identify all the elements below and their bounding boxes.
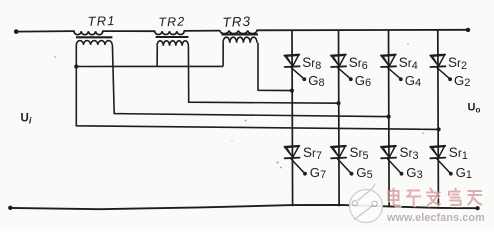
thyristor Sr4 <box>381 55 396 68</box>
gate terminal node G5 <box>350 172 354 176</box>
svg-text:TR1: TR1 <box>87 13 116 29</box>
thyristor Sr3 <box>381 146 396 159</box>
svg-text:Sr7: Sr7 <box>303 145 322 162</box>
node: top-left input terminal <box>14 29 19 34</box>
gate terminal node G2 <box>448 77 452 81</box>
gate terminal node G4 <box>399 77 403 81</box>
thyristor Sr6 <box>331 55 346 68</box>
wire: thyristor column Sr8/Sr7 <box>291 30 294 206</box>
wire: TR1 secondary left lead down to bus A <box>76 45 438 130</box>
transformer TR3: primary winding <box>220 31 257 34</box>
top wire <box>16 30 468 32</box>
gate lead G2 <box>437 67 450 78</box>
node: junction bus D / Sr6 column <box>336 101 340 105</box>
gate lead G7 <box>291 159 304 173</box>
transformer TR1: primary winding <box>74 31 103 35</box>
node: junction bus B / Sr4 column <box>387 115 391 119</box>
gate terminal node G8 <box>302 77 306 81</box>
svg-text:www.elecfans.com: www.elecfans.com <box>386 212 485 224</box>
svg-text:G3: G3 <box>406 165 422 181</box>
wire: TR1 secondary right lead down to bus B <box>112 45 388 117</box>
node: top-right output terminal <box>466 28 470 32</box>
svg-text:G1: G1 <box>456 165 472 181</box>
transformer TR2: secondary winding <box>157 41 188 46</box>
wire: tap bus C linking TR1/TR2/TR3 left leads <box>76 65 223 67</box>
svg-text:G4: G4 <box>405 73 421 89</box>
node: junction bus A / Sr2 column <box>437 127 441 131</box>
gate lead G4 <box>387 67 400 78</box>
bottom wire <box>10 205 477 209</box>
node: bottom-right output terminal <box>476 206 480 210</box>
node: junction of TR1 left lead with tap bus C <box>74 64 78 68</box>
svg-text:Sr2: Sr2 <box>448 55 467 72</box>
svg-text:Sr3: Sr3 <box>400 145 419 162</box>
svg-text:TR3: TR3 <box>222 14 251 30</box>
gate lead G3 <box>387 159 400 173</box>
gate terminal node G7 <box>303 172 307 176</box>
thyristor Sr1 <box>430 146 445 159</box>
watermark logo circle <box>350 184 383 223</box>
wire: TR2 secondary left lead to bus C <box>156 46 158 67</box>
thyristor Sr2 <box>430 55 445 68</box>
svg-text:Uo: Uo <box>468 102 481 115</box>
gate terminal node G1 <box>449 172 453 176</box>
svg-text:G8: G8 <box>308 73 324 89</box>
thyristor Sr8 <box>284 55 299 68</box>
svg-text:G6: G6 <box>355 73 371 89</box>
node: junction bus E / Sr8 column <box>290 89 294 93</box>
svg-text:TR2: TR2 <box>158 14 185 29</box>
wire: TR3 secondary right lead down to bus E <box>258 43 292 91</box>
svg-text:Sr5: Sr5 <box>350 145 369 162</box>
transformer TR1: secondary winding <box>76 41 112 45</box>
svg-text:G5: G5 <box>356 165 372 181</box>
wire: TR3 secondary left lead to bus C end <box>222 43 224 67</box>
transformer TR2: core <box>156 36 189 38</box>
transformer TR1: core <box>76 36 113 38</box>
wire: TR2 secondary right lead down to bus D <box>188 46 338 103</box>
svg-text:Sr6: Sr6 <box>349 55 368 72</box>
wire: thyristor column Sr2/Sr1 <box>437 30 440 206</box>
node: bottom-left input terminal <box>8 206 12 210</box>
svg-text:Sr1: Sr1 <box>449 145 468 162</box>
svg-text:G2: G2 <box>454 73 470 89</box>
gate lead G1 <box>437 159 450 173</box>
wire: thyristor column Sr6/Sr5 <box>338 30 341 206</box>
wire: thyristor column Sr4/Sr3 <box>388 30 391 206</box>
transformer TR3: core <box>222 33 259 35</box>
svg-text:Sr4: Sr4 <box>399 55 418 72</box>
gate terminal node G6 <box>349 77 353 81</box>
gate lead G8 <box>291 67 304 78</box>
thyristor Sr7 <box>284 146 299 159</box>
gate lead G5 <box>337 159 350 173</box>
thyristor Sr5 <box>331 146 346 159</box>
gate terminal node G3 <box>400 172 404 176</box>
transformer TR3: secondary winding <box>223 37 257 43</box>
svg-text:Ui: Ui <box>21 113 32 126</box>
watermark text: site name <box>389 189 483 207</box>
transformer TR2: primary winding <box>155 31 185 34</box>
svg-text:G7: G7 <box>310 165 326 181</box>
gate lead G6 <box>337 67 350 78</box>
svg-text:Sr8: Sr8 <box>302 55 321 72</box>
stray ink specks (paper noise) <box>54 43 424 168</box>
